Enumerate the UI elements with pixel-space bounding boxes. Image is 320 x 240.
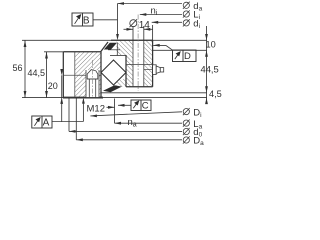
svg-text:na: na — [128, 117, 137, 129]
svg-text:20: 20 — [48, 81, 58, 91]
svg-text:D: D — [184, 51, 191, 62]
svg-text:10: 10 — [206, 40, 216, 50]
svg-text:Di: Di — [193, 107, 201, 119]
svg-text:4,5: 4,5 — [209, 89, 222, 99]
svg-text:A: A — [43, 117, 50, 128]
svg-text:B: B — [83, 15, 90, 26]
svg-text:Da: Da — [193, 136, 204, 148]
svg-text:M12: M12 — [87, 103, 105, 114]
svg-text:44,5: 44,5 — [28, 68, 46, 78]
svg-text:56: 56 — [13, 63, 23, 73]
svg-text:C: C — [142, 101, 149, 112]
svg-text:44,5: 44,5 — [201, 64, 219, 75]
svg-text:14: 14 — [139, 20, 151, 31]
svg-text:ni: ni — [151, 6, 158, 18]
